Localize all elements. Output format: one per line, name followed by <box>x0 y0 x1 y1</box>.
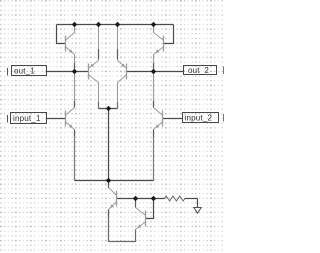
svg-text:out_2: out_2 <box>188 66 209 75</box>
svg-text:out_1: out_1 <box>14 66 35 75</box>
svg-text:input_2: input_2 <box>185 113 213 122</box>
svg-text:input_1: input_1 <box>13 114 41 123</box>
